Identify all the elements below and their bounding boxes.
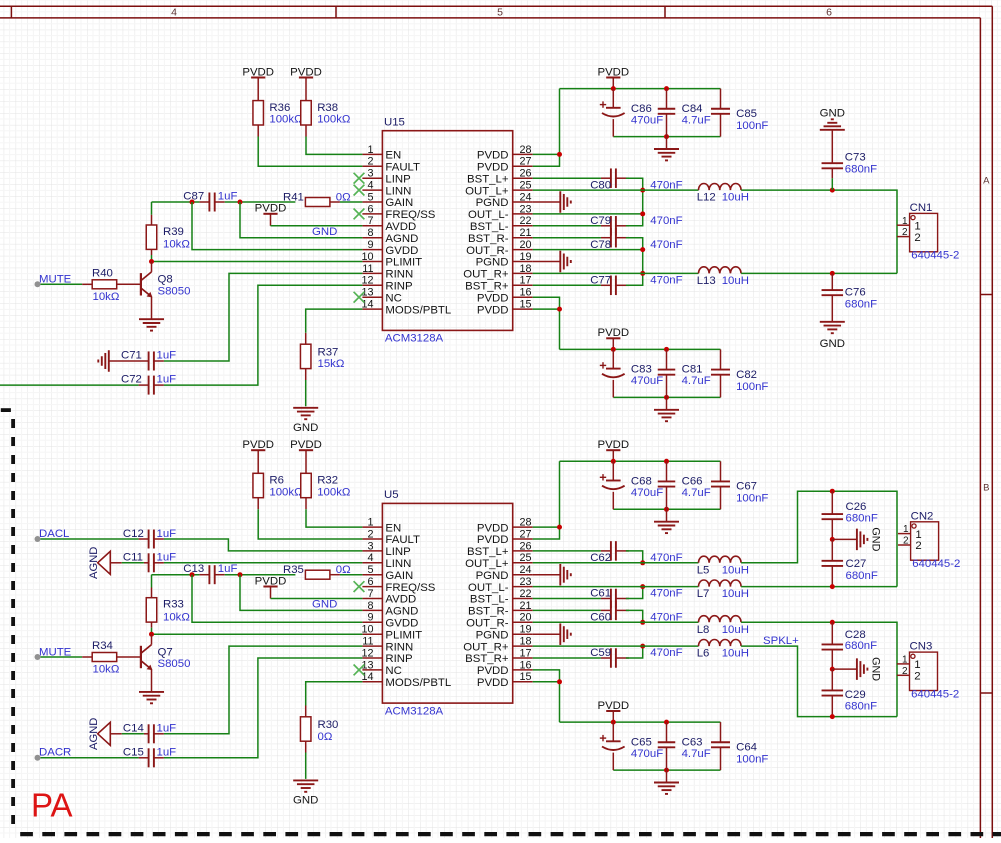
- wire C78 left: [533, 237, 601, 239]
- ground symbol Q8 emitter: [139, 319, 164, 330]
- svg-text:C27: C27: [846, 558, 867, 570]
- wire C59 dogleg: [626, 646, 643, 658]
- junction node C78 out: [640, 247, 645, 252]
- net port DACL: [35, 536, 41, 542]
- wire C77 dogleg: [626, 273, 643, 285]
- wire C60 dogleg: [626, 610, 643, 622]
- svg-text:16: 16: [520, 287, 532, 299]
- wire OUT_R- stub U15: [533, 249, 643, 251]
- svg-text:28: 28: [520, 517, 532, 529]
- svg-text:LINN: LINN: [385, 558, 411, 570]
- wire L6 riser to CN3: [741, 646, 897, 717]
- svg-text:11: 11: [362, 263, 373, 275]
- U15 pin 3 LINP: [362, 168, 410, 186]
- inductor L6 10uH: [697, 640, 749, 660]
- wire C13 to R33: [151, 575, 153, 588]
- junction node C27 bottom: [830, 584, 835, 589]
- svg-text:680nF: 680nF: [845, 701, 877, 713]
- svg-text:C68: C68: [631, 476, 652, 488]
- wire C72 to RINP: [164, 285, 363, 385]
- svg-text:10uH: 10uH: [722, 648, 749, 660]
- wire ground rail bottom: [613, 136, 720, 138]
- wire gain to pin5: [340, 574, 363, 576]
- svg-text:12: 12: [361, 275, 373, 287]
- junction node C29 bottom: [830, 714, 835, 719]
- svg-text:C61: C61: [590, 588, 611, 600]
- U5 pin 27 PVDD: [477, 528, 533, 546]
- svg-text:C72: C72: [121, 373, 142, 385]
- svg-text:C83: C83: [631, 364, 652, 376]
- svg-text:680nF: 680nF: [846, 513, 878, 525]
- wire ground rail bottom: [613, 508, 720, 510]
- U15 pin 8 AGND: [362, 227, 418, 245]
- capacitor C80 470nF bootstrap: [590, 168, 682, 191]
- ground symbol under C76: [820, 322, 845, 350]
- connector CN2 640445-2: [898, 510, 960, 570]
- wire gain net left: [152, 574, 200, 576]
- wire L12 to CN1: [741, 190, 897, 273]
- svg-text:BST_R-: BST_R-: [468, 606, 509, 618]
- svg-text:4.7uF: 4.7uF: [682, 375, 711, 387]
- junction node C80 out: [640, 188, 645, 193]
- svg-text:1uF: 1uF: [157, 528, 177, 540]
- capacitor C26 680nF: [822, 491, 878, 539]
- svg-text:U15: U15: [384, 117, 405, 129]
- wire R36 to pin: [258, 137, 362, 167]
- connector CN1 640445-2: [897, 202, 959, 262]
- junction node C73: [830, 188, 835, 193]
- svg-text:4: 4: [367, 552, 373, 564]
- no-connect X pin6 U5: [354, 581, 365, 592]
- svg-text:PVDD: PVDD: [477, 522, 509, 534]
- capacitor C73 680nF: [822, 130, 878, 179]
- svg-text:470uF: 470uF: [631, 487, 663, 499]
- svg-text:L13: L13: [697, 275, 716, 287]
- U5 pin 25 OUT_L+: [465, 552, 533, 570]
- svg-text:ACM3128A: ACM3128A: [385, 333, 444, 345]
- svg-text:C64: C64: [736, 742, 757, 754]
- svg-text:EN: EN: [385, 522, 401, 534]
- resistor R39 10k: [146, 215, 190, 255]
- wire emitter: [151, 669, 153, 691]
- svg-text:R34: R34: [92, 640, 113, 652]
- svg-text:GND: GND: [870, 657, 882, 681]
- wire PVDD rail to pins 28/27 U15: [533, 89, 560, 167]
- svg-text:10kΩ: 10kΩ: [163, 239, 190, 251]
- svg-text:640445-2: 640445-2: [912, 558, 960, 570]
- svg-text:GND: GND: [312, 226, 337, 238]
- wire C71 to RINN: [164, 273, 363, 361]
- svg-text:1uF: 1uF: [157, 349, 177, 361]
- inductor L7 10uH: [697, 580, 749, 600]
- svg-text:1uF: 1uF: [218, 563, 238, 575]
- resistor R37 15k: [300, 333, 344, 380]
- svg-text:MODS/PBTL: MODS/PBTL: [385, 677, 451, 689]
- svg-text:10kΩ: 10kΩ: [93, 664, 120, 676]
- svg-text:BST_R+: BST_R+: [465, 281, 509, 293]
- U5 pin 7 AVDD: [362, 588, 416, 606]
- capacitor C78 470nF bootstrap: [590, 228, 682, 251]
- svg-text:2: 2: [902, 666, 908, 677]
- svg-text:R30: R30: [318, 719, 339, 731]
- svg-text:LINN: LINN: [385, 185, 411, 197]
- svg-text:PVDD: PVDD: [477, 304, 509, 316]
- wire collector: [151, 262, 153, 272]
- wire C59 left: [533, 657, 601, 659]
- capacitor C14 1uF: [110, 723, 176, 744]
- svg-text:BST_L+: BST_L+: [467, 546, 509, 558]
- resistor R41 0R: [283, 191, 351, 206]
- svg-text:2: 2: [367, 156, 373, 168]
- ground symbol Q7 emitter: [139, 692, 164, 703]
- svg-text:ACM3128A: ACM3128A: [385, 705, 444, 717]
- svg-text:C63: C63: [682, 736, 703, 748]
- U15 pin 24 PGND: [476, 191, 533, 209]
- svg-text:1uF: 1uF: [157, 747, 177, 759]
- U15 pin 17 BST_R+: [465, 275, 533, 293]
- svg-text:R6: R6: [269, 475, 284, 487]
- capacitor C61 470nF bootstrap: [590, 588, 682, 609]
- U15 pin 1 EN: [362, 144, 401, 162]
- svg-text:10: 10: [361, 624, 373, 636]
- wire tie OUT_R- to OUT_R+ (PBTL): [642, 250, 644, 274]
- ground symbol PGND U15 at y=202: [533, 191, 571, 213]
- capacitor C87 1uF: [183, 190, 237, 211]
- svg-text:28: 28: [520, 144, 532, 156]
- junction node PLIMIT: [149, 632, 154, 637]
- svg-text:9: 9: [367, 239, 373, 251]
- svg-text:4.7uF: 4.7uF: [682, 748, 711, 760]
- U5 pin 8 AGND: [362, 600, 418, 618]
- wire L8 to CN3: [741, 622, 897, 716]
- capacitor C28 680nF: [822, 622, 878, 669]
- U15 pin 9 GVDD: [362, 239, 418, 257]
- wire C87 to R39: [151, 202, 153, 215]
- AGND flag at C14: [88, 718, 110, 750]
- U15 pin 23 OUT_L-: [468, 203, 533, 221]
- svg-text:18: 18: [520, 636, 532, 648]
- svg-text:680nF: 680nF: [845, 640, 877, 652]
- svg-text:24: 24: [520, 564, 532, 576]
- ground symbol at C71: [98, 350, 109, 372]
- svg-text:BST_R-: BST_R-: [468, 233, 509, 245]
- PA region dashed border bottom: [20, 832, 1001, 836]
- wire AGND branch: [240, 575, 362, 611]
- svg-text:RINN: RINN: [385, 269, 413, 281]
- no-connect X pin3 U15: [354, 173, 365, 184]
- svg-text:25: 25: [520, 180, 532, 192]
- resistor R38 100k: [301, 78, 351, 137]
- svg-text:FAULT: FAULT: [385, 534, 420, 546]
- svg-text:CN3: CN3: [910, 641, 933, 653]
- svg-text:4: 4: [171, 6, 177, 18]
- svg-text:S8050: S8050: [158, 286, 191, 298]
- svg-text:GVDD: GVDD: [385, 618, 418, 630]
- svg-text:AVDD: AVDD: [385, 594, 416, 606]
- svg-text:AGND: AGND: [88, 718, 100, 750]
- wire gain net left: [152, 201, 200, 203]
- ground symbol PGND U15 at y=261.5: [533, 251, 571, 273]
- wire C12 to LINP: [164, 539, 363, 551]
- svg-text:470nF: 470nF: [650, 239, 682, 251]
- wire OUT_L+ U5 net: [533, 562, 643, 564]
- wire PVDD rail top: [560, 460, 721, 462]
- inductor L8 10uH: [697, 616, 749, 636]
- svg-text:26: 26: [520, 168, 532, 180]
- power flag PVDD cluster C86: [597, 66, 629, 78]
- U5 pin 22 BST_L-: [470, 588, 533, 606]
- svg-text:100nF: 100nF: [736, 754, 768, 766]
- svg-text:19: 19: [520, 624, 532, 636]
- svg-text:100kΩ: 100kΩ: [317, 114, 351, 126]
- svg-text:C86: C86: [631, 103, 652, 115]
- U5 pin 14 MODS/PBTL: [361, 671, 451, 689]
- svg-text:PLIMIT: PLIMIT: [385, 257, 422, 269]
- no-connect X pin13 U5: [354, 665, 365, 676]
- svg-text:C65: C65: [631, 736, 652, 748]
- svg-text:2: 2: [902, 227, 908, 238]
- capacitor C68 470uF electrolytic: [600, 461, 663, 509]
- wire C61 left: [533, 598, 601, 600]
- ground symbol R37: [293, 408, 318, 434]
- svg-text:R40: R40: [92, 267, 113, 279]
- wire C72 left: [0, 384, 139, 386]
- svg-text:NC: NC: [385, 292, 401, 304]
- PA region dashed border left: [11, 419, 15, 830]
- svg-text:100kΩ: 100kΩ: [269, 486, 303, 498]
- U5 pin 6 FREQ/SS: [362, 576, 435, 594]
- ground symbol mid CN2: [832, 527, 881, 551]
- op-amp U15 (ACM3128A class-D amplifier): [382, 117, 512, 345]
- svg-text:GVDD: GVDD: [385, 245, 418, 257]
- capacitor C62 470nF bootstrap: [590, 541, 682, 564]
- svg-text:2: 2: [915, 540, 921, 552]
- svg-text:16: 16: [520, 659, 532, 671]
- svg-text:100kΩ: 100kΩ: [317, 486, 351, 498]
- capacitor C60 470nF bootstrap: [590, 601, 682, 624]
- junction nodes rails: [611, 86, 616, 91]
- wire C79 left: [533, 225, 601, 227]
- capacitor C77 470nF bootstrap: [590, 274, 682, 295]
- wire PVDD rail to pins 28/27 U5: [533, 461, 560, 539]
- svg-text:PGND: PGND: [476, 197, 509, 209]
- svg-text:EN: EN: [385, 150, 401, 162]
- capacitor C71 1uF: [109, 349, 176, 370]
- svg-text:RINP: RINP: [385, 281, 412, 293]
- svg-text:470uF: 470uF: [631, 748, 663, 760]
- svg-text:OUT_R-: OUT_R-: [466, 245, 509, 257]
- svg-text:PGND: PGND: [476, 257, 509, 269]
- svg-text:10: 10: [361, 251, 373, 263]
- svg-text:470uF: 470uF: [631, 375, 663, 387]
- junction node GVDD branch: [190, 200, 195, 205]
- U5 pin 19 PGND: [476, 624, 533, 642]
- svg-text:GND: GND: [820, 338, 845, 350]
- svg-text:AGND: AGND: [88, 547, 100, 579]
- svg-text:LINP: LINP: [385, 546, 410, 558]
- svg-text:L12: L12: [697, 192, 716, 204]
- svg-text:C11: C11: [123, 552, 143, 564]
- wire AGND branch: [240, 202, 362, 238]
- junction node C26/C27 mid: [830, 537, 835, 542]
- svg-text:PVDD: PVDD: [477, 162, 509, 174]
- wire OUT_L- U5 net: [533, 586, 643, 588]
- svg-text:2: 2: [367, 528, 373, 540]
- svg-text:SPKL+: SPKL+: [763, 635, 799, 647]
- wire OUT_L+ net: [533, 189, 643, 191]
- svg-text:GND: GND: [312, 599, 337, 611]
- svg-text:NC: NC: [385, 665, 401, 677]
- wire DACL: [41, 538, 139, 540]
- svg-text:17: 17: [520, 275, 532, 287]
- capacitor C84 4.7uF: [658, 89, 711, 137]
- svg-text:OUT_L-: OUT_L-: [468, 582, 509, 594]
- svg-text:R37: R37: [318, 347, 339, 359]
- U15 pin 27 PVDD: [477, 156, 533, 174]
- svg-text:C14: C14: [123, 723, 144, 735]
- svg-text:26: 26: [520, 540, 532, 552]
- power flag PVDD cluster C68: [597, 439, 629, 451]
- U5 pin 1 EN: [362, 517, 401, 535]
- op-amp U5 (ACM3128A class-D amplifier): [382, 489, 512, 717]
- svg-text:7: 7: [367, 215, 373, 227]
- svg-text:15kΩ: 15kΩ: [318, 358, 345, 370]
- U15 pin 19 PGND: [476, 251, 533, 269]
- svg-text:2: 2: [914, 232, 920, 244]
- wire C11 to LINN: [164, 562, 363, 564]
- U15 pin 26 BST_L+: [467, 168, 533, 186]
- svg-text:22: 22: [520, 588, 532, 600]
- svg-text:3: 3: [367, 168, 373, 180]
- svg-text:10uH: 10uH: [722, 192, 749, 204]
- U5 pin 12 RINP: [361, 647, 412, 665]
- svg-text:Q7: Q7: [158, 646, 173, 658]
- svg-text:15: 15: [520, 671, 532, 683]
- wire C78 dogleg: [626, 238, 643, 250]
- wire C14 to RINN: [164, 646, 363, 734]
- svg-text:7: 7: [367, 588, 373, 600]
- svg-text:MODS/PBTL: MODS/PBTL: [385, 304, 451, 316]
- U5 pin 26 BST_L+: [467, 540, 533, 558]
- U15 pin 10 PLIMIT: [361, 251, 422, 269]
- wire PVDD rail to pins 16/15 U15: [533, 297, 560, 349]
- svg-text:C78: C78: [590, 239, 611, 251]
- wire AVDD: [270, 587, 272, 599]
- svg-text:1: 1: [367, 517, 373, 529]
- capacitor C86 470uF electrolytic: [600, 89, 663, 137]
- power flag PVDD cluster C65: [597, 700, 629, 712]
- junction nodes rails: [611, 720, 616, 725]
- svg-text:10kΩ: 10kΩ: [163, 611, 190, 623]
- svg-text:L5: L5: [697, 564, 710, 576]
- capacitor C59 470nF bootstrap: [590, 647, 682, 668]
- wire R37 to ground: [305, 380, 307, 406]
- svg-text:R36: R36: [269, 102, 290, 114]
- capacitor C79 470nF bootstrap: [590, 215, 682, 236]
- svg-text:PA: PA: [31, 787, 73, 824]
- U15 pin 7 AVDD: [362, 215, 416, 233]
- ground symbol PGND U5 at y=634.2: [533, 623, 571, 645]
- U5 pin 17 BST_R+: [465, 647, 533, 665]
- resistor R40 10k: [82, 267, 141, 303]
- svg-text:PGND: PGND: [476, 570, 509, 582]
- svg-text:15: 15: [520, 299, 532, 311]
- ground symbol cluster C86: [666, 137, 668, 149]
- U5 pin 21 BST_R-: [468, 600, 533, 618]
- wire ground rail bottom: [613, 769, 720, 771]
- svg-text:GND: GND: [870, 527, 882, 551]
- svg-text:FAULT: FAULT: [385, 162, 420, 174]
- wire GVDD branch: [192, 575, 362, 623]
- svg-text:20: 20: [520, 239, 532, 251]
- svg-text:6: 6: [367, 203, 373, 215]
- wire C62 left: [533, 550, 601, 552]
- svg-text:5: 5: [497, 6, 503, 18]
- U5 pin 23 OUT_L-: [468, 576, 533, 594]
- svg-text:10kΩ: 10kΩ: [93, 291, 120, 303]
- U15 pin 13 NC: [361, 287, 401, 305]
- wire C80 dogleg: [626, 178, 643, 190]
- svg-text:4.7uF: 4.7uF: [682, 487, 711, 499]
- junction node C61 out: [640, 584, 645, 589]
- svg-text:DACL: DACL: [39, 528, 69, 540]
- svg-text:B: B: [983, 483, 989, 494]
- capacitor C13 1uF: [183, 563, 237, 584]
- svg-text:GND: GND: [820, 108, 845, 120]
- connector CN3 640445-2: [897, 641, 959, 701]
- svg-text:1: 1: [902, 655, 908, 666]
- svg-text:C76: C76: [845, 287, 866, 299]
- wire emitter: [151, 297, 153, 319]
- wire PVDD rail top: [560, 721, 721, 723]
- svg-text:6: 6: [826, 6, 832, 18]
- junction node GVDD branch: [190, 572, 195, 577]
- U15 pin 14 MODS/PBTL: [361, 299, 451, 317]
- svg-text:19: 19: [520, 251, 532, 263]
- svg-text:BST_R+: BST_R+: [465, 653, 509, 665]
- svg-text:470nF: 470nF: [650, 588, 682, 600]
- wire tie OUT_L+ to OUT_L- (PBTL): [642, 190, 644, 214]
- junction nodes rails: [611, 347, 616, 352]
- svg-text:CN1: CN1: [910, 202, 933, 214]
- capacitor C83 470uF electrolytic: [600, 349, 663, 397]
- capacitor C29 680nF: [822, 669, 878, 717]
- wire C77 left: [533, 284, 601, 286]
- svg-text:1uF: 1uF: [157, 723, 177, 735]
- svg-text:GND: GND: [293, 795, 318, 807]
- svg-text:BST_L+: BST_L+: [467, 173, 509, 185]
- junction node C59 out: [640, 644, 645, 649]
- svg-text:L7: L7: [697, 588, 710, 600]
- transistor Q7 S8050: [141, 645, 191, 671]
- U5 pin 4 LINN: [362, 552, 411, 570]
- PA region dashed border corner dash: [1, 408, 11, 412]
- svg-text:R32: R32: [317, 475, 338, 487]
- wire MODS to R37: [306, 309, 363, 333]
- capacitor C81 4.7uF: [658, 349, 711, 397]
- junction node PLIMIT: [149, 259, 154, 264]
- wire OUT_L- stub U15: [533, 213, 643, 215]
- svg-text:OUT_R-: OUT_R-: [466, 618, 509, 630]
- svg-text:GAIN: GAIN: [385, 197, 413, 209]
- svg-text:C29: C29: [845, 689, 866, 701]
- wire C80 left: [533, 177, 601, 179]
- svg-text:10uH: 10uH: [722, 275, 749, 287]
- svg-text:C82: C82: [736, 369, 757, 381]
- U15 pin 16 PVDD: [477, 287, 533, 305]
- power flag PVDD cluster C83: [597, 327, 629, 339]
- wire OUT_R+ net: [533, 272, 643, 274]
